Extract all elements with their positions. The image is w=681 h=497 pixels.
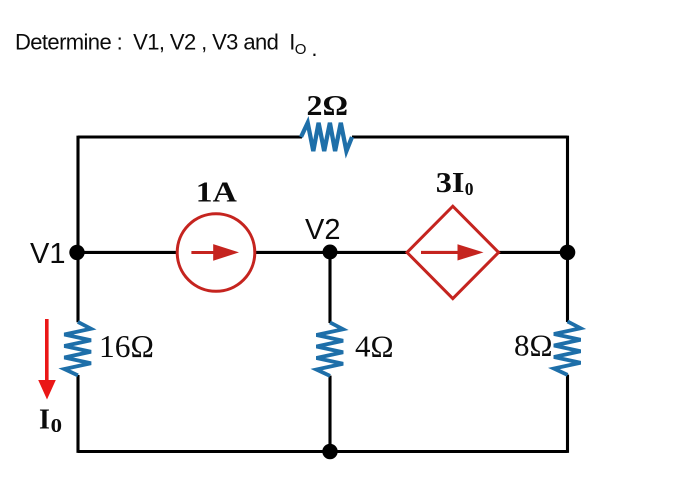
resistor R 4ohm: [316, 322, 393, 376]
wire top rail left: [78, 135, 302, 138]
wire right rail upper: [566, 136, 569, 322]
wire left rail lower: [76, 375, 79, 453]
svg-text:8Ω: 8Ω: [514, 328, 553, 363]
wire bottom rail: [78, 450, 568, 453]
node bottom: [322, 444, 337, 459]
svg-text:3I: 3I: [436, 168, 465, 199]
svg-text:0: 0: [51, 416, 62, 437]
svg-text:V2: V2: [305, 214, 340, 246]
current arrow Io: [38, 319, 62, 437]
wire left rail upper: [76, 136, 79, 323]
wire middle horizontal: [77, 251, 568, 254]
node V1: [30, 238, 85, 270]
wire right rail lower: [566, 375, 569, 453]
wire top rail right: [352, 135, 568, 138]
resistor R 2ohm: [301, 91, 352, 151]
node right: [560, 245, 576, 261]
svg-text:Determine : V1, V2 , V3 and: Determine : V1, V2 , V3 and IO .: [15, 30, 317, 62]
svg-text:V1: V1: [30, 238, 65, 270]
svg-text:I: I: [39, 405, 50, 436]
dependent current source 3Io: [407, 168, 499, 299]
node V2: [305, 214, 340, 260]
resistor R 16ohm: [64, 322, 154, 376]
svg-text:4Ω: 4Ω: [355, 329, 394, 364]
current source I1 1A: [177, 178, 255, 292]
wire middle branch lower: [328, 376, 331, 452]
resistor R 8ohm: [514, 321, 581, 375]
svg-text:0: 0: [465, 179, 474, 199]
svg-text:1A: 1A: [196, 178, 237, 209]
wire middle branch upper: [328, 252, 331, 323]
svg-text:16Ω: 16Ω: [99, 329, 154, 364]
svg-text:2Ω: 2Ω: [307, 91, 349, 122]
